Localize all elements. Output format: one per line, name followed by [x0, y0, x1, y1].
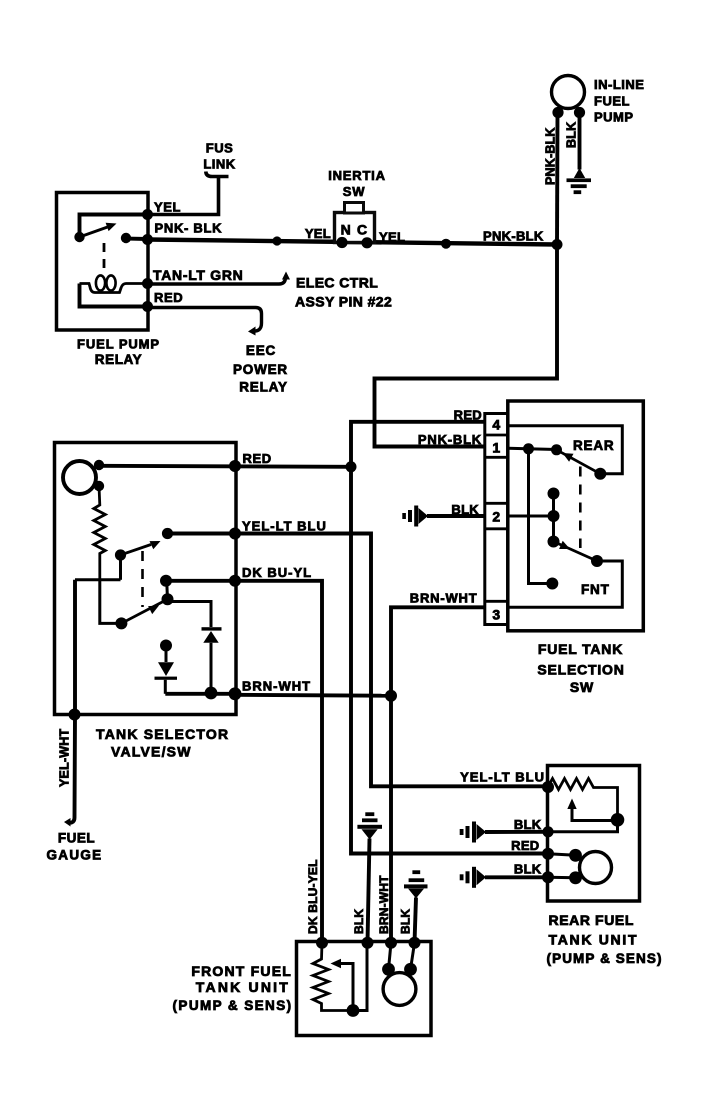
wire: BRN-WHT tank selector branch: [235, 693, 391, 698]
switch blade upper: [121, 545, 152, 556]
wire: RED to EEC power relay: [147, 308, 262, 332]
node upper tap: [548, 488, 560, 500]
wire: PNK-BLK route pump bus to selection switch pin 1: [375, 245, 558, 447]
relay switch blade: [80, 227, 110, 238]
svg-text:REAR: REAR: [573, 438, 614, 453]
node on pin1 line: [523, 443, 534, 454]
blade arrowhead: [563, 453, 574, 462]
relay coil: [80, 284, 148, 293]
svg-text:N C: N C: [341, 222, 369, 238]
svg-text:YEL-LT BLU: YEL-LT BLU: [460, 770, 545, 785]
rear fuel tank unit box: [548, 766, 640, 902]
svg-text:POWER: POWER: [233, 362, 288, 377]
svg-text:TANK UNIT: TANK UNIT: [549, 932, 639, 948]
CTRL-SECTION: [147, 272, 392, 395]
svg-text:YEL-LT BLU: YEL-LT BLU: [242, 519, 327, 534]
wire: contact to PNK-BLK terminal: [126, 237, 147, 241]
resistor (front sender): [313, 943, 353, 1011]
node D1 anode terminal: [160, 640, 172, 652]
wire: relay internal YEL feed: [80, 215, 148, 238]
contact node lower right: [591, 555, 603, 567]
pump terminal node right: [404, 963, 417, 976]
svg-text:RELAY: RELAY: [95, 352, 143, 367]
svg-text:1: 1: [492, 440, 500, 456]
svg-text:LINK: LINK: [203, 157, 235, 172]
wire: RED to pump: [548, 854, 576, 856]
svg-text:BRN-WHT: BRN-WHT: [242, 679, 311, 694]
pump terminal node (PNK-BLK): [552, 107, 563, 118]
svg-text:BLK: BLK: [565, 122, 579, 148]
terminal node RED: [142, 301, 153, 312]
wire: pin4 RED internal: [508, 426, 623, 474]
wire: BLK internal to wiper: [548, 820, 618, 832]
svg-text:SELECTION: SELECTION: [537, 662, 624, 678]
junction node splice: [441, 239, 451, 249]
node lower blade pivot: [115, 617, 127, 629]
SELSW-SECTION: [402, 401, 643, 695]
wire: BLK pump to ground: [578, 112, 582, 170]
pump terminal node (BLK): [574, 107, 585, 118]
svg-text:BRN-WHT: BRN-WHT: [410, 591, 478, 606]
node BRN-WHT at box edge: [229, 687, 242, 700]
front pump motor M4: [383, 973, 416, 1006]
svg-text:DK BLU-YEL: DK BLU-YEL: [306, 859, 320, 934]
wire: BLK to pump: [411, 943, 415, 970]
pump terminal node left: [382, 963, 395, 976]
wire: pin2 riser: [552, 494, 555, 542]
node RED at box edge: [229, 460, 241, 472]
connector arrow (EEC): [248, 327, 256, 336]
svg-text:ELEC CTRL: ELEC CTRL: [296, 275, 378, 291]
motor terminal node bottom: [94, 481, 104, 491]
relay switch contact (common): [74, 232, 84, 242]
svg-text:YEL-WHT: YEL-WHT: [58, 729, 72, 787]
node wiper junction: [347, 1004, 360, 1017]
terminal node left: [336, 237, 347, 248]
wire: RED route selection switch pin 4 to rear tank unit: [351, 422, 548, 854]
wire: pin1 to FNT contact: [529, 449, 553, 584]
svg-text:(PUMP & SENS): (PUMP & SENS): [547, 951, 663, 966]
ganged switch dashed link: [579, 467, 582, 549]
svg-text:BLK: BLK: [352, 909, 366, 934]
node D2 junction: [205, 687, 218, 700]
svg-text:SW: SW: [343, 184, 366, 199]
connector arrow (ELEC CTRL): [282, 272, 290, 280]
svg-text:INERTIA: INERTIA: [328, 168, 386, 183]
wire: BLK ground 2 to box: [485, 875, 548, 879]
contact node YEL-LT BLU: [162, 528, 173, 539]
contact node REAR: [594, 468, 606, 480]
wire: pin2 internal: [508, 515, 554, 518]
svg-text:RELAY: RELAY: [239, 380, 288, 395]
terminal node PNK-BLK: [142, 234, 153, 245]
terminal node BLK: [362, 937, 374, 949]
svg-text:FUEL PUMP: FUEL PUMP: [77, 337, 160, 352]
junction node RED tap to tank selector: [346, 461, 357, 472]
connector pin strip: [485, 414, 508, 625]
node BLK entry 2: [542, 871, 554, 883]
terminal node TAN-LT GRN: [142, 278, 153, 289]
relay switch blade arrowhead: [106, 223, 117, 231]
ground (front unit BLK 1, inverted): [365, 812, 374, 816]
wire: coil to RED terminal: [80, 284, 148, 307]
resistor (rear sender): [548, 779, 618, 820]
wire: contact to box edge: [168, 532, 236, 536]
tank selector valve/sw box: [55, 443, 237, 715]
node BLK entry: [542, 826, 553, 837]
fuse link FUS LINK: [206, 172, 229, 177]
svg-text:VALVE/SW: VALVE/SW: [111, 744, 192, 760]
inertia switch body: [335, 213, 375, 243]
wire: YEL-LT BLU route tank selector to rear tank unit: [235, 534, 548, 787]
wire: PNK-BLK drop from pump to bus: [555, 112, 559, 245]
MAIN-WIRE-SECTION: [147, 229, 563, 251]
terminal node BLK 2: [409, 937, 421, 949]
wiper arrowhead: [567, 799, 576, 810]
svg-text:RED: RED: [454, 408, 482, 423]
fuel tank selection switch box: [508, 401, 644, 631]
wire: DK BU-YL contact to box edge: [166, 579, 235, 583]
contact node DK BU-YL: [160, 575, 172, 587]
wire: D2 to BRN-WHT bus: [210, 643, 213, 692]
svg-text:PNK-BLK: PNK-BLK: [418, 432, 482, 447]
wire: BRN-WHT internal bus: [165, 692, 235, 696]
wire: BRN-WHT route selection switch pin 3 to front tank unit: [391, 607, 486, 943]
svg-text:RED: RED: [154, 290, 183, 305]
svg-text:EEC: EEC: [246, 343, 276, 358]
wire: RED from motor to route: [99, 466, 351, 467]
switch blade upper (REAR position): [557, 450, 601, 474]
wire: lower contact to diode D2: [168, 602, 212, 628]
node YEL-WHT at box bottom: [69, 709, 81, 721]
svg-text:IN-LINE: IN-LINE: [594, 77, 644, 92]
svg-text:2: 2: [492, 509, 500, 525]
wire: D1 to BRN-WHT bus: [164, 680, 167, 694]
wire: BLK ground to pin 2: [427, 514, 486, 518]
svg-text:BLK: BLK: [514, 817, 542, 832]
front fuel tank unit box: [297, 942, 432, 1036]
wire: DK BU-YL contact down-link: [165, 581, 169, 600]
pump terminal node +: [569, 849, 582, 862]
svg-text:SW: SW: [570, 679, 594, 695]
switch blade lower (FNT side): [554, 542, 598, 562]
FRONT-SECTION: [173, 812, 431, 1035]
svg-text:FRONT FUEL: FRONT FUEL: [191, 963, 292, 979]
svg-text:RED: RED: [511, 838, 539, 853]
wire: BLK to pump: [548, 876, 576, 880]
svg-text:REAR FUEL: REAR FUEL: [549, 912, 635, 928]
svg-text:PNK- BLK: PNK- BLK: [155, 221, 223, 236]
node DK BU-YL at box edge: [229, 575, 241, 587]
svg-text:3: 3: [492, 607, 500, 623]
wire: drop to lower blade: [100, 580, 122, 624]
rear pump motor M3: [580, 852, 612, 884]
selector valve motor M2: [63, 461, 96, 494]
wire: main PNK-BLK bus from relay to in-line pump drop: [147, 240, 557, 245]
blade arrowhead: [148, 606, 159, 615]
svg-text:YEL: YEL: [154, 200, 181, 215]
ground (rear sender): [477, 824, 487, 840]
wire: wiper to BLK terminal: [353, 943, 367, 1011]
motor terminal node top: [94, 460, 104, 470]
svg-text:FNT: FNT: [581, 582, 610, 597]
TANKSEL-SECTION: [46, 443, 351, 863]
wire: pin1 PNK-BLK internal: [508, 448, 557, 449]
svg-text:BRN-WHT: BRN-WHT: [377, 875, 391, 934]
terminal node right: [361, 237, 372, 248]
svg-text:PUMP: PUMP: [594, 110, 634, 125]
relay switch contact (normally open): [121, 233, 131, 243]
node blade pivot (upper): [551, 444, 562, 455]
wire: D1 anode lead: [165, 646, 168, 663]
ganged blades dashed link: [141, 551, 144, 607]
wire: BLK ground to box: [485, 830, 548, 834]
svg-text:YEL: YEL: [379, 230, 405, 245]
svg-text:TANK UNIT: TANK UNIT: [196, 979, 290, 995]
svg-text:TAN-LT GRN: TAN-LT GRN: [153, 267, 243, 283]
svg-text:FUEL: FUEL: [58, 831, 95, 846]
blade arrowhead: [150, 541, 161, 549]
RELAY-SECTION: [57, 141, 244, 368]
wire: YEL to fuse link: [147, 177, 219, 215]
junction node splice: [272, 236, 281, 245]
svg-text:FUEL: FUEL: [594, 94, 630, 109]
inertia switch button: [345, 203, 364, 214]
svg-text:FUEL TANK: FUEL TANK: [538, 641, 623, 657]
wire: riser to upper blade: [119, 555, 122, 580]
node wiper junction: [611, 813, 625, 827]
node RED entry: [542, 848, 554, 860]
wire: BRN-WHT to pump: [389, 943, 392, 970]
PUMP-SECTION: [544, 76, 645, 245]
svg-text:DK BU-YL: DK BU-YL: [242, 565, 312, 580]
terminal node BRN-WHT: [385, 937, 397, 949]
svg-text:YEL: YEL: [305, 226, 331, 241]
junction node at pump drop: [552, 239, 563, 250]
svg-text:4: 4: [492, 417, 500, 433]
terminal node DK BLU-YEL: [316, 937, 328, 949]
node YEL-LT BLU entry: [542, 781, 554, 793]
node YEL-LT BLU at box edge: [229, 528, 241, 540]
pin strip dividers: [485, 434, 508, 437]
junction node BRN-WHT: [385, 690, 397, 702]
wire: YEL-WHT drop to fuel gauge: [69, 580, 76, 823]
svg-text:PNK-BLK: PNK-BLK: [544, 127, 558, 185]
in-line fuel pump motor M1: [552, 76, 585, 109]
svg-text:PNK-BLK: PNK-BLK: [483, 229, 544, 244]
diode D1: [158, 662, 174, 676]
wiper arrowhead: [331, 959, 342, 968]
diode D1 cathode bar: [155, 677, 178, 680]
diode D2: [203, 631, 218, 643]
svg-text:ASSY PIN #22: ASSY PIN #22: [295, 294, 392, 310]
gauge arrow: [64, 818, 71, 827]
wire: BLK ground 2 drop to unit: [415, 898, 417, 943]
wire: BLK ground drop to unit: [368, 839, 370, 943]
resistor (selector sensor): [94, 486, 106, 580]
svg-text:RED: RED: [243, 451, 272, 466]
svg-text:BLK: BLK: [399, 909, 413, 934]
svg-text:(PUMP & SENS): (PUMP & SENS): [173, 998, 293, 1013]
wiper arm: [338, 964, 353, 1011]
ROUTES-SECTION: [235, 245, 557, 943]
ground (pin 2): [419, 508, 429, 524]
wiper arm: [572, 806, 618, 821]
node upper blade pivot: [115, 549, 126, 560]
wire: TAN-LT GRN to ELEC CTRL assy: [147, 277, 286, 284]
wire: lower bus inside selector: [75, 578, 121, 581]
contact node FNT: [546, 578, 558, 590]
node blade pivot (lower): [548, 536, 560, 548]
blade arrowhead: [559, 541, 570, 549]
ground (rear pump): [477, 869, 487, 885]
relay actuator dashed link: [103, 243, 106, 268]
node pin2 junction: [548, 510, 560, 522]
switch blade lower: [121, 599, 167, 623]
ground (front unit BLK 2, inverted): [412, 870, 420, 874]
ground (in-line pump): [574, 168, 585, 178]
svg-text:FUS: FUS: [206, 141, 234, 156]
svg-text:BLK: BLK: [514, 862, 542, 877]
svg-text:TANK SELECTOR: TANK SELECTOR: [96, 726, 229, 742]
REAR-SECTION: [460, 766, 663, 967]
terminal node YEL: [142, 209, 153, 220]
pump terminal node -: [569, 871, 582, 884]
wire: lower contact to pin3 path: [508, 561, 623, 607]
wire: DK BU-YL route tank selector to front tank unit: [235, 581, 322, 943]
diode D2 cathode bar: [202, 627, 222, 630]
svg-text:GAUGE: GAUGE: [46, 848, 102, 863]
INERTIA-SECTION: [305, 168, 405, 248]
relay K1 box (fuel pump relay): [57, 193, 149, 331]
contact node lower switch: [162, 593, 174, 605]
